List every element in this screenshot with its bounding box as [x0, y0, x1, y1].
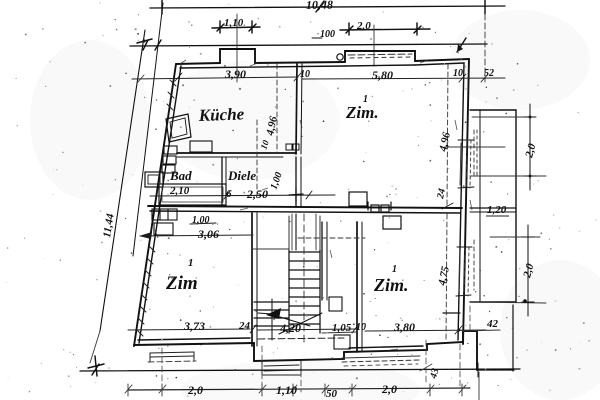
dim 3,73 / 24 / 4,20 row [128, 325, 358, 333]
kueche bottom wall [177, 153, 296, 157]
stair upper flight rails [289, 216, 320, 250]
stair bay dashed floor line [258, 338, 344, 339]
terrace corner bottom right [443, 305, 514, 400]
left exterior wall (slanted, double) [134, 64, 181, 346]
svg-text:2,0: 2,0 [381, 382, 397, 396]
dim 3,80 row [365, 326, 486, 334]
svg-text:52: 52 [484, 68, 494, 79]
svg-text:10,48: 10,48 [306, 0, 333, 12]
tick cross bottom of boundary [88, 356, 104, 376]
dim 4,96 left vertical [276, 64, 278, 153]
annex thin line y237 [490, 236, 540, 238]
svg-text:100: 100 [320, 29, 335, 40]
svg-text:1: 1 [363, 94, 368, 105]
svg-text:Diele: Diele [227, 168, 256, 183]
svg-text:42: 42 [486, 318, 499, 330]
annex divider wall 1,20 [470, 208, 516, 212]
annex thin line y147 [446, 146, 505, 148]
svg-text:4,75: 4,75 [436, 265, 452, 288]
annex bottom ext dash [470, 302, 546, 303]
stair direction arrow [258, 308, 310, 326]
landing line [252, 248, 289, 250]
bad/diele divider wall [222, 157, 226, 206]
svg-text:2,10: 2,10 [169, 185, 190, 197]
stair hall west wall [252, 213, 257, 346]
extension vertical x=485 right [484, 14, 486, 82]
dim line 10,48 top [150, 0, 505, 14]
window hatch right wall lower [464, 247, 469, 296]
interior wall kueche/zim vertical [296, 64, 302, 154]
annex thin line y176 [470, 175, 546, 177]
stack of 3 small squares (flue) [162, 146, 177, 173]
annex wall window hatch [474, 130, 477, 290]
top exterior wall outer [176, 49, 469, 64]
svg-text:6: 6 [226, 188, 232, 200]
hatching on left wall upper part [167, 80, 176, 110]
svg-text:Zim.: Zim. [345, 103, 379, 122]
kueche window parallelogram on left wall [166, 114, 191, 142]
dim 4,96 right vertical [442, 64, 453, 209]
svg-text:50: 50 [326, 388, 338, 400]
long middle wall y=207 [148, 206, 462, 213]
long bottom boundary line [80, 369, 520, 371]
svg-text:1,00: 1,00 [192, 215, 210, 226]
left zim window bay below bottom wall [148, 352, 196, 362]
two small squares right of stove [368, 202, 391, 212]
radiator boxes lower zim [152, 209, 177, 235]
small box stair corridor 1 [329, 297, 342, 311]
dim 4,75 right vertical [446, 214, 447, 340]
bottom extension verticals [162, 306, 470, 392]
bathtub in bad [159, 184, 226, 205]
svg-text:1,10: 1,10 [224, 17, 244, 29]
door squares at diele top [286, 144, 299, 150]
extension vertical x=374 [373, 25, 375, 66]
annex dim vertical bottom 2,0 [522, 225, 534, 316]
tick cross top of boundary [137, 39, 152, 43]
svg-text:3,06: 3,06 [197, 227, 219, 241]
dim 3,90 kueche [132, 73, 301, 83]
svg-text:1,10: 1,10 [276, 383, 297, 397]
svg-text:1: 1 [188, 257, 194, 269]
staircase flight [289, 250, 320, 333]
hatching on left wall lower part [137, 246, 155, 336]
svg-text:Zim.: Zim. [373, 275, 409, 295]
stair center dashed line [303, 214, 305, 346]
svg-text:10: 10 [453, 68, 463, 79]
svg-text:10: 10 [356, 322, 366, 333]
plus tick at diele wall [289, 188, 303, 202]
svg-text:Küche: Küche [197, 104, 244, 125]
bottom dimension line [125, 384, 470, 396]
dim 42 bottom right [462, 330, 500, 331]
svg-text:3,80: 3,80 [393, 320, 415, 334]
svg-text:4,96: 4,96 [437, 131, 453, 154]
box protruding left of wall (bay) [145, 172, 163, 187]
wc wall dashed [298, 237, 365, 239]
upper stairwell verticals [292, 214, 316, 250]
svg-text:2,0: 2,0 [523, 142, 539, 160]
svg-text:2,0: 2,0 [187, 383, 203, 397]
dim 2,50 diele horizontal [150, 191, 335, 199]
annex outline right [470, 110, 516, 302]
dim 1,00 diele vertical [256, 120, 258, 196]
underline of 100 label [312, 37, 322, 39]
svg-text:5,80: 5,80 [372, 68, 393, 82]
svg-text:Bad: Bad [169, 168, 192, 183]
svg-text:1: 1 [392, 264, 397, 275]
second boundary slant line [133, 3, 163, 256]
extension vertical x=272 lower stair [271, 299, 273, 340]
svg-text:24: 24 [238, 320, 251, 332]
bottom exterior wall [134, 331, 477, 370]
svg-text:24: 24 [435, 188, 448, 201]
svg-text:1,05: 1,05 [332, 322, 352, 334]
lower flight treads full width [254, 302, 289, 326]
dim 3,06 / 1,00 lower zim [139, 223, 253, 239]
window hatch right wall upper [466, 140, 471, 188]
box in zim br top [383, 216, 401, 229]
dim 5,80 zim tr [302, 74, 505, 82]
svg-text:Zim: Zim [165, 273, 198, 294]
corridor floor line [322, 332, 357, 333]
diele east wall [296, 157, 301, 206]
dim 1,10 (top bay) [212, 21, 260, 33]
window glazing dashes in top-right bay [348, 54, 412, 58]
svg-text:4,20: 4,20 [279, 321, 301, 335]
svg-text:1,20: 1,20 [487, 204, 507, 216]
dim 2,0 (top right bay) [340, 23, 430, 35]
svg-text:3,73: 3,73 [183, 319, 205, 333]
annex dim vertical top 2,0 [524, 104, 536, 190]
right wall window end ticks [456, 140, 474, 296]
wall right of stair flight [322, 222, 327, 300]
top exterior wall inner [180, 63, 464, 68]
right zim window bay dashes [342, 356, 420, 366]
sink box kueche [190, 141, 212, 152]
circle symbol on top wall [337, 54, 343, 60]
small box stair corridor 2 [334, 335, 350, 349]
property boundary slant line left (with 11,44 dim) [90, 30, 145, 363]
stair diagonal cut line [279, 313, 322, 334]
svg-text:2,0: 2,0 [356, 20, 371, 32]
right exterior wall (double) [458, 59, 469, 344]
stove box on wall (zim tr) [349, 192, 367, 206]
scan smudges [155, 60, 472, 350]
entrance porch below stair bay [262, 360, 301, 375]
cross tick on boundary left [92, 364, 99, 375]
annex thin line y117 [472, 116, 530, 118]
corridor east wall [357, 222, 362, 352]
extension vertical through 1,10 bay center [236, 14, 238, 82]
dim line B y=46 [130, 38, 487, 52]
svg-text:10: 10 [300, 69, 310, 80]
svg-text:3,90: 3,90 [224, 67, 246, 81]
